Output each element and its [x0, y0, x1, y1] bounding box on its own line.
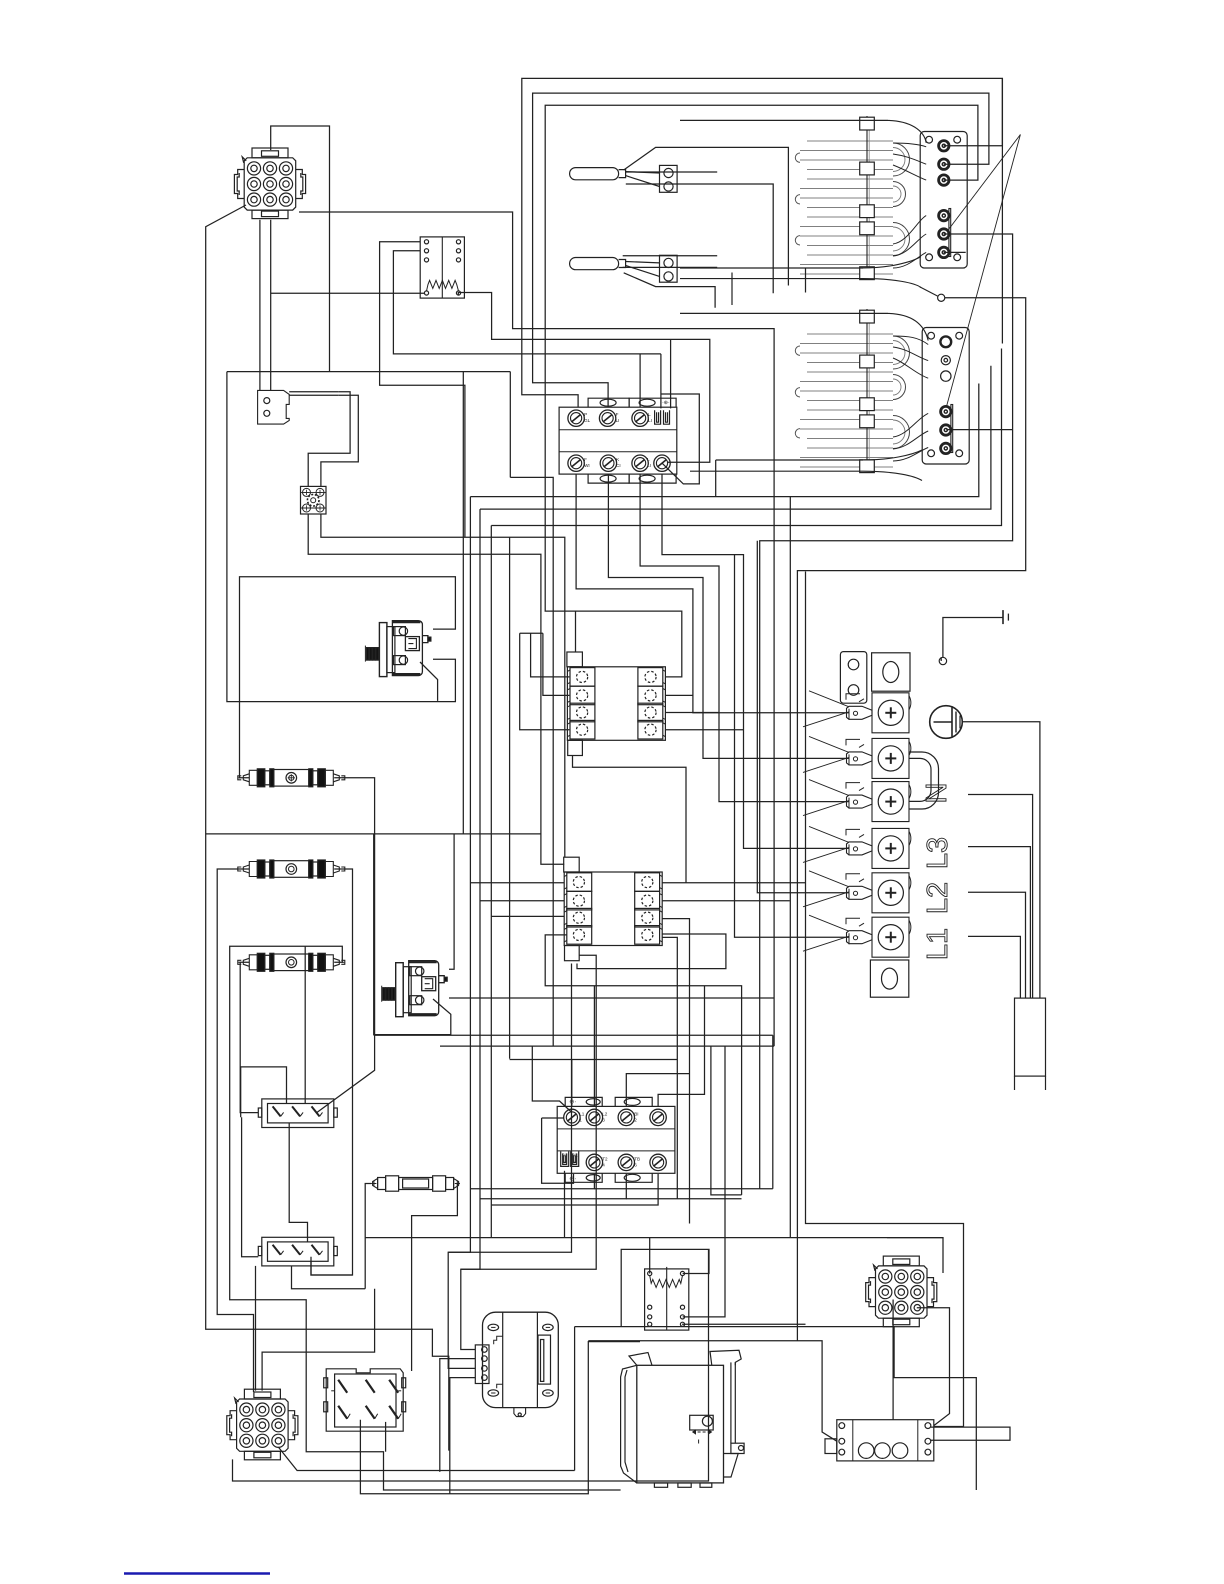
- connector P1 (9-pin): [234, 148, 305, 219]
- wire relay K2 bottom tab b: [461, 955, 596, 1269]
- svg-text:3: 3: [602, 1117, 605, 1122]
- wire fan vertical 2: [461, 509, 480, 1349]
- wire V226 down: [227, 372, 456, 702]
- thermal limiter F2: [238, 860, 345, 878]
- svg-text:1: 1: [579, 1117, 582, 1122]
- wire sw2 screw2 feed: [593, 986, 595, 1107]
- wire thermostat TH1 top wire: [240, 577, 456, 778]
- svg-text:CI: CI: [616, 463, 621, 468]
- wire tstat2 left vertical: [374, 834, 451, 1035]
- wire spade2 up: [670, 339, 672, 408]
- wire plate2 screw5 stub: [946, 429, 1012, 431]
- thermostat TH1: [365, 621, 431, 677]
- element 1 plate lead curves: [680, 267, 863, 269]
- wire line A resbox: [458, 293, 710, 463]
- relay block K2: [564, 857, 663, 961]
- wire conn P3 mid down: [892, 1300, 894, 1420]
- svg-text:AI: AI: [562, 1152, 566, 1157]
- heating element bake: [680, 309, 928, 473]
- door latch switch DL1: [324, 1369, 406, 1431]
- wire conn P2 top feed: [255, 1266, 257, 1391]
- wire conn P1 pin chain A: [299, 212, 774, 1046]
- wire doorbox right down: [385, 1422, 387, 1452]
- wire tstat TH2 bottom wire: [449, 997, 774, 999]
- wire strip X1 mid down: [289, 1123, 307, 1242]
- wire switch SW1 screw3 up: [639, 354, 641, 407]
- wire door switch bar2: [289, 394, 338, 396]
- relay block K1: [567, 652, 666, 756]
- element 2 plate lead curves: [716, 459, 863, 461]
- thermal limiter F3: [238, 953, 345, 971]
- power terminal incoming diagonals: [803, 712, 849, 727]
- wire relay K1 left t2: [543, 633, 570, 695]
- wire res R2 loop: [621, 1249, 709, 1326]
- wire strip X2 slash3 down: [311, 1261, 353, 1275]
- svg-text:L: L: [648, 412, 651, 417]
- wire conn P2 bottom: [233, 1249, 709, 1481]
- svg-text:6: 6: [634, 1162, 637, 1167]
- svg-text:BI: BI: [634, 1111, 638, 1116]
- wire doorbox mid down: [360, 1342, 640, 1494]
- wire relay K1 top feed: [576, 611, 682, 677]
- thermostat TH2: [382, 961, 448, 1017]
- wire strip X1 top feed a: [241, 1067, 287, 1117]
- resistor network R1: [420, 237, 464, 298]
- wire relay K1 right t2: [665, 694, 693, 696]
- wire gray sw2 spade: [564, 1171, 566, 1238]
- wire conn P1 diag left: [206, 205, 449, 1451]
- wire fan line 3b: [1001, 78, 1003, 343]
- svg-text:L1: L1: [922, 928, 954, 960]
- surface unit switch SW2: [557, 1097, 675, 1182]
- surface unit switch SW1: [559, 398, 677, 483]
- wire tco chain bottom: [262, 1289, 375, 1391]
- wire bus y833: [206, 833, 541, 835]
- wire relay K1 right t3: [665, 712, 719, 714]
- wire V463 down: [462, 372, 464, 834]
- svg-text:N: N: [921, 783, 953, 804]
- wire powerterm L3 wire: [968, 847, 1030, 999]
- oven control module A1: [621, 1350, 745, 1487]
- wire powerterm gnd wire: [963, 722, 1040, 998]
- wire fuse F2 right: [311, 869, 353, 1275]
- wire elem1 lead hook: [805, 268, 807, 293]
- wire relay K1 left t1: [531, 633, 570, 677]
- chassis ground symbol: [1003, 610, 1008, 624]
- wire relay K2 right t1: [662, 882, 805, 884]
- svg-text:AL: AL: [572, 1152, 578, 1157]
- svg-text:L3: L3: [922, 837, 954, 869]
- wire res R2 right low: [682, 1323, 805, 1325]
- wire conn P3 top: [887, 1237, 943, 1239]
- oven sensor probe B2: [570, 255, 678, 282]
- wire probe B2 wire a: [623, 255, 718, 257]
- svg-text:L2: L2: [922, 882, 954, 914]
- wire relay K2 right t2: [662, 900, 790, 902]
- wire strip X1 left link: [242, 1117, 259, 1257]
- wire TH1 diag wire: [420, 662, 438, 701]
- resistor network R2: [645, 1267, 689, 1330]
- svg-text:2: 2: [634, 1117, 637, 1122]
- door switch S1: [258, 390, 290, 424]
- terminal strip X2: [258, 1237, 337, 1266]
- wire tco right: [412, 1184, 460, 1372]
- wire frame outer top: [522, 78, 1003, 407]
- wire relay K2 bottom tab a: [448, 964, 571, 1253]
- heating element broil: [680, 116, 926, 280]
- wire fan line 3: [491, 349, 1001, 526]
- wire bus y1035: [374, 1034, 773, 1036]
- wire switch SW1 spade chain: [660, 354, 662, 409]
- connector P2 (9-pin): [227, 1389, 298, 1460]
- wire V574 down: [574, 1327, 576, 1471]
- wire conn P1 pin to door switch b: [270, 220, 272, 391]
- wire frame mid top: [533, 93, 989, 407]
- wire conn P3 right down: [917, 1308, 950, 1426]
- wire termbox right wires a: [931, 1426, 1010, 1428]
- wire sw2 screw1 feed: [510, 1059, 678, 1061]
- wire interlock wire: [797, 298, 1025, 1341]
- wire sw2 bottom 1: [470, 1174, 594, 1189]
- wire sw2 left diag: [532, 1046, 572, 1112]
- wire sw2 bottom 1b: [594, 1188, 772, 1190]
- wire fan vertical 3: [490, 526, 492, 1238]
- wire t4 chain: [450, 1378, 476, 1494]
- wire relay K1 left t4: [520, 633, 570, 730]
- wire conn P1 pin to door switch a: [259, 220, 261, 391]
- wire switch SW1 stair 2: [608, 474, 849, 758]
- tick near probe2: [731, 273, 733, 306]
- svg-text:⊕·: ⊕·: [569, 1176, 576, 1182]
- thermal limiter F1: [238, 769, 345, 787]
- wire long bottom H1237: [365, 1238, 943, 1273]
- oven sensor probe B1: [570, 165, 678, 192]
- wire sw2 left wire: [542, 1117, 564, 1119]
- wire sw2 left hook: [542, 1118, 574, 1183]
- svg-text:P: P: [584, 412, 587, 417]
- terminal strip X1: [258, 1099, 337, 1128]
- power supply terminal block TB1: [840, 652, 938, 998]
- svg-text:F: F: [616, 412, 619, 417]
- wire powerterm L2 wire: [968, 892, 1026, 998]
- wire H1326 long: [575, 1327, 977, 1490]
- wire tstat TH2 top wire: [449, 834, 454, 969]
- svg-text:LI: LI: [616, 418, 620, 423]
- wire sw2 screw3 feed: [626, 1074, 689, 1107]
- wire fan line 1: [470, 384, 978, 497]
- wire bus H633: [520, 632, 543, 634]
- wire conn P2 diag: [278, 1447, 574, 1471]
- earth ground symbol: [930, 706, 963, 739]
- element terminal plate PL2: [922, 328, 969, 465]
- wire V205 none: [940, 657, 942, 661]
- wire V510 drop: [509, 372, 511, 478]
- wire bar to grommet a: [308, 392, 350, 487]
- svg-text:GL: GL: [584, 418, 591, 423]
- wire elem2 bottom v: [715, 460, 717, 497]
- wire spade chain h: [661, 394, 699, 484]
- wire bus y293: [271, 292, 425, 294]
- wire relay K2 left t2: [480, 900, 564, 902]
- svg-text:WI: WI: [584, 463, 590, 468]
- wire t2 chain: [440, 1359, 476, 1472]
- wire sw2 bottom 3: [491, 1174, 658, 1205]
- wire sw2 bottom 2: [480, 1174, 626, 1199]
- svg-text:L: L: [647, 457, 650, 462]
- wire grommet down b: [321, 514, 565, 857]
- wire module top wire: [588, 1341, 837, 1442]
- wire chassis wire: [943, 618, 1003, 658]
- wire res R2 mid feed: [683, 1046, 725, 1317]
- thermal cutoff TCO1: [371, 1176, 459, 1191]
- wire relay K2 left t3: [491, 915, 564, 917]
- wire sw2 bottom 2b: [626, 1198, 741, 1200]
- wire fuse F3 right: [230, 946, 621, 1490]
- wire V790 long: [789, 497, 791, 1238]
- svg-text:L2: L2: [602, 1111, 608, 1116]
- connector P3 (9-pin): [866, 1256, 937, 1327]
- element terminal plate PL1: [920, 132, 967, 269]
- wire res R2 top feed: [649, 1238, 651, 1274]
- svg-text:F: F: [584, 457, 587, 462]
- wire V772 drop: [772, 1035, 774, 1189]
- wire bar to grommet b: [321, 395, 358, 486]
- interlock switch SW3: [920, 287, 945, 302]
- wire conn P1 top loop: [271, 126, 330, 372]
- wire resbox left wire 1: [380, 242, 465, 538]
- supply cable: [1015, 998, 1046, 1076]
- wire fuse F3 left: [240, 962, 258, 1112]
- wire fan vertical 4: [509, 537, 511, 1058]
- wire fuse F2 left: [217, 869, 253, 1392]
- svg-text:LI: LI: [647, 463, 651, 468]
- svg-text:LI: LI: [648, 418, 652, 423]
- ignition terminal box TB2: [825, 1420, 934, 1461]
- wire probe B1 wire b: [626, 184, 773, 293]
- svg-text:·⊕·: ·⊕·: [662, 400, 670, 406]
- wire switch SW1 stair 1: [576, 474, 849, 713]
- wire powerterm L1 wire: [968, 936, 1020, 998]
- svg-text:4: 4: [602, 1162, 605, 1167]
- wire door switch bar: [289, 391, 338, 393]
- wire elem2 fan b: [735, 555, 850, 938]
- wire plate1-plate2 link: [760, 234, 1013, 1189]
- wire relay K2 t4 loop: [577, 934, 726, 969]
- wire frame inner top: [545, 105, 978, 652]
- wire elem2 fan a: [757, 541, 849, 893]
- wire fan line 2: [480, 366, 991, 509]
- wire grommet down a: [308, 514, 564, 864]
- wire relay K1 right t4: [665, 729, 743, 731]
- wire bus y1046: [440, 1045, 774, 1047]
- wire relay K2 right t3: [662, 919, 689, 1224]
- wire strip X1 top feed b: [304, 946, 306, 1103]
- wire relay K2 left t1: [470, 882, 564, 884]
- wire tco left: [365, 1184, 371, 1289]
- wire relay K2 right t4: [662, 937, 677, 1198]
- svg-text:⊕·: ⊕·: [569, 1099, 576, 1105]
- node chassis drop: [939, 657, 946, 664]
- wire fuse F1 right: [317, 778, 375, 1113]
- wire bus H371: [227, 371, 510, 373]
- wire switch SW1 stair 4: [662, 474, 849, 848]
- svg-text:L1: L1: [579, 1111, 585, 1116]
- wire powerterm N wire: [968, 795, 1033, 999]
- wire sw2 screw4 feed: [658, 986, 704, 1107]
- wire V805 long: [806, 572, 964, 1427]
- svg-text:TB: TB: [634, 1156, 640, 1161]
- svg-text:T2: T2: [602, 1156, 608, 1161]
- wire probe B1 top lead: [624, 147, 789, 285]
- wire sw2 screw1 drop: [571, 1060, 573, 1107]
- wire relay K2 hook: [545, 935, 741, 1195]
- wire sw2 right vert: [711, 1046, 742, 1195]
- footer link line: [124, 1572, 270, 1574]
- wire termbox right wires b: [931, 1427, 1010, 1441]
- wire relay K1 bottom tab: [573, 755, 687, 883]
- transformer T1: [475, 1312, 558, 1416]
- wire H477 link: [510, 477, 553, 1046]
- mounting block G1: [301, 486, 327, 514]
- wire resbox left wire 2: [393, 251, 661, 354]
- callout leader lines: [949, 135, 1020, 229]
- wire strip X2 mid down: [292, 1266, 366, 1289]
- wire fan vertical 1: [448, 497, 475, 1369]
- wire probe B1 wire a: [626, 171, 717, 173]
- wire plate1 screw6 wire: [944, 251, 966, 253]
- wire probe B2 wire b: [623, 266, 718, 268]
- wire probe2 chain: [624, 273, 715, 308]
- wire switch SW1 stair 3: [640, 474, 849, 801]
